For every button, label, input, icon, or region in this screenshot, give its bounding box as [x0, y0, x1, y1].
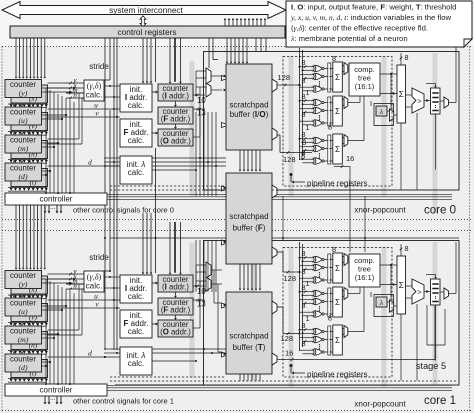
svg-text:buffer (F): buffer (F): [233, 224, 266, 233]
scratchpad IO top wires: [226, 38, 228, 62]
u v wire labels core0: [48, 108, 121, 110]
core 1 enclosure: [204, 241, 460, 386]
threshold shift register core0: [431, 88, 441, 114]
init to counter arrows core1: [152, 282, 156, 284]
counter (m) core1: [5, 326, 42, 344]
gate input wires group 2 core1: [300, 291, 311, 293]
init lambda calc core0: [120, 156, 152, 184]
other control signals core0: [44, 206, 46, 212]
(γ,δ) calc core0: [84, 80, 104, 101]
(γ,δ) calc core1: [84, 271, 104, 292]
mux row under counter (y) core0: [8, 104, 47, 108]
result wires down core1: [400, 314, 402, 381]
svg-text:128: 128: [278, 73, 291, 82]
scratchpad addr mux b core0: [206, 83, 211, 97]
xnor-popcount dashed box core1: [283, 248, 392, 378]
xnor input buses core1: [299, 242, 301, 351]
accumulator core1: [397, 256, 406, 314]
gate input wires group 1 core1: [300, 257, 311, 259]
mux row under counter (d) core1: [8, 379, 47, 383]
counter (d) core1: [5, 354, 42, 372]
svg-text:8: 8: [332, 245, 336, 254]
scratchpad left wiring: [195, 112, 197, 196]
popcount adder group 3 core0: [333, 134, 343, 164]
svg-text:stride: stride: [89, 62, 109, 71]
control registers: [10, 26, 285, 38]
svg-text:other control signals for core: other control signals for core 1: [73, 397, 174, 406]
svg-text:xnor-popcount: xnor-popcount: [354, 206, 406, 215]
svg-text:scratchpad: scratchpad: [229, 101, 268, 110]
init lambda output wire core1: [152, 360, 196, 362]
counter (O addr.) core0: [158, 129, 193, 146]
counter (v) core1: [11, 304, 48, 322]
svg-text:y, x, u, v, m, n, d, t: induct: y, x, u, v, m, n, d, t: induction variab…: [290, 13, 452, 22]
popcount adder group 1 core1: [333, 253, 343, 283]
core 0 enclosure: [204, 52, 460, 191]
counter (t) core0: [11, 169, 48, 187]
xnor gate group 2 core1: [315, 290, 322, 296]
threshold shift register core1: [431, 279, 441, 305]
128 bus label io: [277, 84, 300, 86]
svg-text:Σ: Σ: [335, 145, 340, 154]
scratchpad F right port mux a: [272, 185, 277, 198]
svg-text:(m): (m): [18, 144, 29, 153]
pipeline stage bar core1 a: [190, 243, 195, 378]
svg-text:1: 1: [306, 123, 310, 132]
svg-text:d: d: [88, 158, 92, 167]
pipeline stage bar core0 c: [382, 56, 387, 196]
pipeline register bar group 2 core0: [328, 97, 331, 126]
accumulator output width core1: [400, 244, 402, 256]
svg-text:controller: controller: [40, 386, 73, 395]
svg-text:8: 8: [302, 249, 306, 258]
svg-text:(O addr.): (O addr.): [160, 328, 191, 337]
svg-text:128: 128: [281, 334, 294, 343]
counter (n) core1: [11, 332, 48, 350]
popcount output wires core0: [348, 67, 349, 69]
init to counter arrows core0: [152, 91, 156, 93]
counter (u) core1: [5, 298, 42, 316]
comp tree core1: [349, 254, 380, 287]
xnor bus top wires: [255, 38, 257, 52]
svg-text:Σ: Σ: [335, 298, 340, 307]
svg-text:1: 1: [306, 279, 310, 288]
counter (m) core0: [5, 135, 42, 153]
svg-text:...: ...: [50, 205, 55, 211]
svg-text:(I addr.): (I addr.): [162, 92, 189, 101]
output wires right: [455, 47, 457, 52]
core separator dotted: [2, 219, 472, 221]
pipeline register bar group 2 core1: [328, 288, 331, 317]
counter O output wire core1: [193, 327, 200, 329]
counter (y) core0: [5, 80, 42, 98]
counter (F addr.) core1: [158, 298, 193, 315]
svg-text:other control signals for core: other control signals for core 0: [73, 206, 174, 215]
scratchpad horizontals: [104, 157, 120, 159]
svg-text:controller: controller: [40, 195, 73, 204]
accumulator wires core1: [380, 264, 397, 266]
scratchpad IO right port mux b: [272, 128, 277, 140]
mux row under counter (u) core0: [8, 132, 47, 136]
scratchpad buffer (I/O): [226, 64, 272, 150]
counter (d) core0: [5, 163, 42, 181]
d wire label core1: [48, 356, 121, 358]
svg-text:>: >: [417, 288, 422, 297]
adder out mux group 2 core1: [344, 288, 348, 300]
lambda mux core0: [390, 109, 394, 121]
pipeline stage bar core0 a: [190, 61, 195, 196]
popcount output wires core1: [348, 258, 349, 260]
svg-text:Σ: Σ: [335, 264, 340, 273]
adder out mux group 2 core0: [344, 97, 348, 109]
bus width 13 core1: [193, 299, 205, 301]
svg-text:(u): (u): [18, 307, 27, 316]
128 bus label t2: [277, 306, 283, 308]
svg-text:λ: membrane potential of a neu: λ: membrane potential of a neuron: [290, 34, 408, 43]
scratchpad buffer (F): [226, 173, 272, 264]
gate input wires group 3 core1: [300, 329, 311, 331]
svg-text:pipeline registers: pipeline registers: [307, 370, 367, 379]
scratchpad buffer (T): [226, 292, 272, 374]
counter output mesh core0: [45, 88, 47, 193]
counter (x) core1: [11, 276, 48, 294]
pipeline stage bar core0 d: [433, 53, 438, 213]
scratchpad control wires top: [208, 38, 210, 68]
svg-text:>: >: [417, 97, 422, 106]
scratchpad T left ports: [222, 303, 227, 308]
svg-text:(u): (u): [18, 116, 27, 125]
svg-text:λ: λ: [379, 107, 384, 116]
scratchpad T bottom wires: [239, 374, 241, 381]
counter (u) core0: [5, 107, 42, 125]
svg-text:buffer (T): buffer (T): [233, 343, 266, 352]
svg-text:(F addr.): (F addr.): [161, 115, 191, 124]
wires to next counter core0: [13, 161, 15, 164]
svg-text:(y): (y): [19, 88, 28, 97]
controller core1: [5, 384, 107, 396]
pipeline stage bar core1 e: [433, 242, 438, 385]
accumulator wires core0: [380, 73, 397, 75]
svg-text:pipeline registers: pipeline registers: [307, 179, 367, 188]
counter output mesh core1: [45, 279, 47, 384]
adder out mux group 1 core1: [344, 254, 348, 266]
scratchpad IO to F wires: [239, 150, 241, 170]
svg-text:core 0: core 0: [424, 205, 456, 217]
scratchpad T right port mux b: [272, 353, 277, 365]
accumulator core0: [397, 65, 406, 123]
xnor gate group 3 core0: [315, 137, 322, 143]
svg-text:buffer (I/O): buffer (I/O): [230, 110, 269, 119]
counter (O addr.) core1: [158, 320, 193, 337]
svg-text:1: 1: [306, 88, 310, 97]
svg-text:calc.: calc.: [128, 136, 144, 145]
scratchpad IO right port mux a: [272, 79, 277, 92]
svg-text:Σ: Σ: [399, 89, 404, 99]
svg-text:128: 128: [284, 274, 297, 283]
svg-text:calc.: calc.: [128, 101, 144, 110]
scratchpad F right port mux b: [272, 247, 277, 258]
init calc control wires core1: [142, 213, 144, 273]
comp tree core0: [349, 63, 380, 96]
16 bus label t: [277, 359, 435, 361]
svg-text:8: 8: [302, 110, 306, 119]
svg-text:system interconnect: system interconnect: [109, 5, 183, 15]
xnor-popcount dashed box core0: [283, 57, 392, 187]
svg-text:calc.: calc.: [128, 327, 144, 336]
counter (v) core0: [11, 113, 48, 131]
counter (n) core0: [11, 141, 48, 159]
result wires down core0: [400, 123, 402, 190]
inter-core wires: [110, 237, 459, 239]
comparator core1: [412, 279, 424, 304]
pipeline register bar group 3 core0: [328, 135, 331, 164]
stride wire: [109, 38, 111, 80]
svg-text:8: 8: [332, 54, 336, 63]
svg-text:13: 13: [197, 109, 206, 118]
core1 mux to T elbows: [213, 270, 215, 303]
svg-text:16: 16: [346, 154, 354, 163]
128 bus label f: [277, 251, 283, 253]
scratchpad IO left ports: [222, 76, 227, 81]
pipeline register bar group 1 core1: [328, 254, 331, 283]
xnor gate group 1 core0: [315, 65, 322, 71]
figure dotted border: [2, 46, 472, 48]
gamma calc input wires core0: [66, 82, 84, 84]
svg-text:λ: λ: [379, 298, 384, 307]
other control signals core1: [44, 397, 46, 403]
svg-text:scratchpad: scratchpad: [229, 332, 268, 341]
counter O output wire core0: [193, 136, 200, 138]
lambda unit enclosure core0: [374, 104, 394, 126]
svg-text:16: 16: [285, 349, 293, 358]
output mux core1: [444, 288, 449, 299]
init calc control wires core0: [142, 38, 144, 82]
svg-text:1: 1: [306, 314, 310, 323]
counter (I addr.) core0: [158, 84, 193, 101]
core1 output feedback elbow: [426, 305, 428, 345]
svg-text:(γ,δ): (γ,δ): [87, 273, 102, 282]
counter (I addr.) core1: [158, 275, 193, 292]
init F addr calc core1: [120, 310, 152, 338]
gate input wires group 2 core0: [300, 100, 311, 102]
svg-text:(16:1): (16:1): [355, 82, 375, 91]
svg-text:8: 8: [405, 53, 409, 62]
popcount adder group 2 core0: [333, 96, 343, 126]
gamma calc output wires core0: [104, 85, 120, 87]
mux row under counter (u) core1: [8, 323, 47, 327]
bus width 10 core1: [193, 285, 205, 287]
svg-text:(γ,δ): (γ,δ): [87, 82, 102, 91]
u v wire labels core1: [48, 299, 121, 301]
svg-text:128: 128: [283, 155, 296, 164]
controller output wires core1: [107, 384, 452, 386]
pipeline stage bar core1 c: [289, 247, 294, 387]
xnor gate group 1 core1: [315, 256, 322, 262]
gate input wires group 3 core0: [300, 138, 311, 140]
mux row under counter (m) core0: [8, 160, 47, 164]
shift reg top wire core0: [435, 84, 437, 87]
controller output wires core0: [107, 193, 452, 195]
svg-text:...: ...: [50, 396, 55, 402]
popcount adder group 3 core1: [333, 325, 343, 355]
control wire bundle left core1: [15, 205, 17, 268]
svg-text:8: 8: [302, 339, 306, 348]
svg-text:(O addr.): (O addr.): [160, 137, 191, 146]
bus link arrow: [140, 16, 146, 27]
svg-text:(γ,δ): center of the effective: (γ,δ): center of the effective receptive…: [291, 24, 428, 33]
svg-text:8: 8: [328, 314, 332, 323]
dashed control line core0: [110, 185, 226, 187]
shift reg top wire core1: [435, 275, 437, 278]
controller core0: [5, 193, 107, 205]
svg-text:10: 10: [197, 96, 206, 105]
svg-text:13: 13: [197, 300, 206, 309]
svg-text:calc.: calc.: [128, 168, 144, 177]
init F addr calc core0: [120, 119, 152, 147]
gamma calc input wires core1: [66, 273, 84, 275]
mux input wires core0: [196, 70, 206, 72]
mux row under counter (y) core1: [8, 295, 47, 299]
comparator core0: [412, 88, 424, 113]
addr counter control wires core0: [169, 38, 171, 82]
svg-text:stride: stride: [89, 253, 109, 262]
gamma calc output wires core1: [104, 276, 120, 278]
svg-text:(y): (y): [19, 279, 28, 288]
pipeline register bar group 3 core1: [328, 326, 331, 355]
svg-text:(F addr.): (F addr.): [161, 306, 191, 315]
wires to next counter core1: [13, 296, 15, 299]
adder out mux group 3 core0: [344, 135, 348, 147]
control wire bundle left core0: [15, 38, 17, 77]
svg-text:(16:1): (16:1): [355, 273, 375, 282]
pipeline stage bar core1 b: [251, 242, 256, 380]
counter (y) core1: [5, 271, 42, 289]
counter (F addr.) core0: [158, 107, 193, 124]
dashed control line core1: [110, 376, 226, 378]
gate input wires group 1 core0: [300, 66, 311, 68]
xnor input buses core0: [299, 48, 301, 160]
init lambda calc core1: [120, 347, 152, 375]
wires to next counter core0: [13, 105, 15, 108]
system interconnect bus arrow: [2, 2, 286, 19]
pipeline registers label core1: [290, 364, 293, 367]
svg-text:(m): (m): [18, 335, 29, 344]
svg-text:scratchpad: scratchpad: [229, 212, 268, 221]
pipeline registers label core0: [290, 173, 293, 176]
svg-text:8: 8: [302, 138, 306, 147]
adder out mux group 3 core1: [344, 326, 348, 338]
popcount adder group 2 core1: [333, 287, 343, 317]
accumulator output width core0: [400, 53, 402, 65]
interconnect wires: [224, 19, 226, 26]
lambda register core0: [376, 106, 387, 116]
mux row under counter (d) core0: [8, 188, 47, 192]
scratchpad F to T wires: [239, 264, 241, 289]
xnor gate group 3 core1: [315, 328, 322, 334]
init lambda output wire core0: [152, 169, 196, 171]
svg-text:xnor-popcount: xnor-popcount: [354, 400, 406, 409]
svg-text:8: 8: [328, 123, 332, 132]
junction dots: [104, 237, 106, 239]
bus width 13 core0: [193, 108, 205, 110]
output mux core0: [444, 97, 449, 108]
svg-text:Σ: Σ: [335, 336, 340, 345]
pipeline stage bar core0 b: [289, 56, 294, 196]
wires to next counter core1: [13, 352, 15, 355]
counter (x) core0: [11, 85, 48, 103]
pipeline register bar group 1 core0: [328, 63, 331, 92]
wires to next counter core1: [13, 324, 15, 327]
svg-text:(I addr.): (I addr.): [162, 283, 189, 292]
svg-text:d: d: [88, 349, 92, 358]
mux input wires core1: [196, 264, 206, 266]
mux row under counter (m) core1: [8, 351, 47, 355]
svg-text:Σ: Σ: [335, 107, 340, 116]
lambda mux core1: [390, 300, 394, 312]
init I addr calc core0: [120, 84, 152, 112]
svg-text:Σ: Σ: [335, 73, 340, 82]
bus width 10 core0: [193, 94, 205, 96]
adder out mux group 1 core0: [344, 63, 348, 75]
wires to next counter core0: [13, 133, 15, 136]
svg-text:I, O: input, output feature, F: I, O: input, output feature, F: weight, …: [291, 3, 456, 12]
svg-text:(d): (d): [18, 172, 27, 181]
svg-text:calc.: calc.: [86, 91, 103, 100]
xnor gate group 2 core0: [315, 99, 322, 105]
svg-text:calc.: calc.: [86, 282, 103, 291]
io lower mux bus: [277, 134, 280, 136]
svg-text:stage 5: stage 5: [416, 361, 446, 371]
d wire label core0: [48, 165, 121, 167]
lambda unit enclosure core1: [374, 295, 394, 317]
popcount adder group 1 core0: [333, 62, 343, 92]
svg-text:calc.: calc.: [128, 292, 144, 301]
svg-text:8: 8: [302, 58, 306, 67]
svg-text:core 1: core 1: [424, 395, 456, 407]
control wires mid: [104, 38, 106, 350]
svg-text:10: 10: [197, 287, 206, 296]
legend note box: [286, 1, 472, 47]
svg-text:8: 8: [302, 267, 306, 276]
svg-text:Σ: Σ: [399, 280, 404, 290]
svg-text:8: 8: [302, 76, 306, 85]
scratchpad F left ports: [222, 186, 227, 191]
scratchpad addr mux a core1: [206, 262, 211, 278]
lambda register core1: [376, 297, 387, 307]
scratchpad T right port mux a: [272, 301, 277, 314]
pipeline stage bar core1 d: [382, 247, 387, 387]
counter (t) core1: [11, 360, 48, 378]
svg-text:calc.: calc.: [128, 359, 144, 368]
svg-text:(d): (d): [18, 363, 27, 372]
scratchpad addr mux a core0: [206, 68, 211, 84]
svg-text:8: 8: [302, 301, 306, 310]
addr counter control wires core1: [169, 222, 171, 273]
svg-text:control registers: control registers: [117, 27, 176, 37]
scratchpad addr mux b core1: [206, 277, 211, 291]
init I addr calc core1: [120, 275, 152, 303]
svg-text:8: 8: [405, 244, 409, 253]
